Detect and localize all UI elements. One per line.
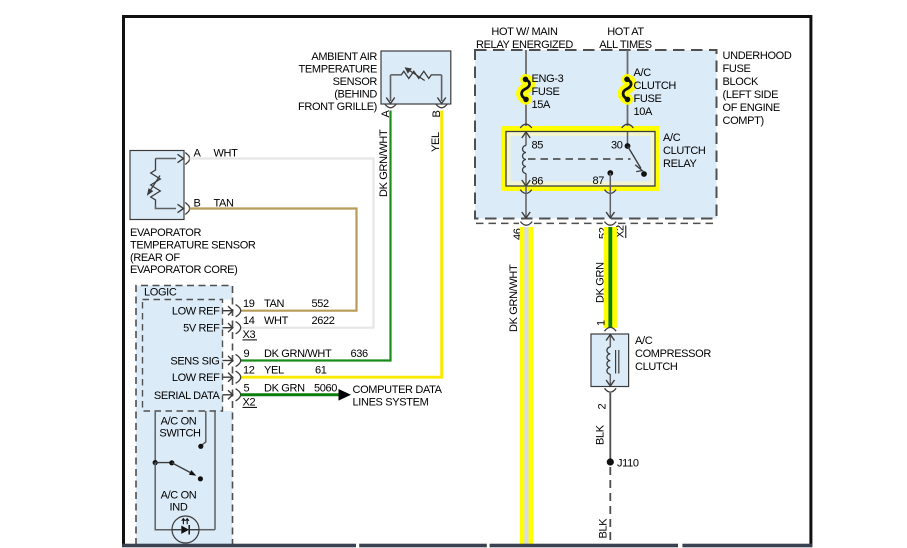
A/C on switch stubs	[155, 411, 215, 530]
ambient sensor caption	[298, 51, 377, 113]
svg-text:87: 87	[593, 175, 605, 187]
relay coil between 85 and 86	[522, 132, 530, 186]
outer frame	[122, 17, 812, 548]
svg-text:WHT: WHT	[264, 315, 289, 327]
svg-text:9: 9	[244, 348, 250, 360]
terminal label X2 underlined	[615, 225, 627, 238]
svg-text:5V REF: 5V REF	[183, 323, 220, 335]
svg-text:LOW REF: LOW REF	[172, 372, 220, 384]
svg-text:IND: IND	[170, 502, 188, 514]
svg-text:14: 14	[243, 315, 255, 327]
svg-text:ENG-3: ENG-3	[532, 73, 564, 85]
svg-text:A/C ON: A/C ON	[161, 416, 197, 428]
fuse ENG-3 label	[532, 73, 564, 111]
svg-text:AMBIENT AIR: AMBIENT AIR	[311, 51, 377, 63]
evaporator temperature sensor	[130, 148, 238, 220]
connector X3 label	[243, 329, 258, 341]
A/C clutch relay (highlighted)	[501, 126, 659, 191]
wire from right stub to LED	[199, 529, 215, 531]
svg-text:COMPRESSOR: COMPRESSOR	[635, 348, 711, 360]
splice J110	[607, 458, 639, 470]
svg-text:J110: J110	[617, 458, 639, 470]
svg-text:SERIAL DATA: SERIAL DATA	[154, 390, 221, 402]
evap internal leads	[156, 158, 177, 160]
logic pin 5	[154, 382, 337, 402]
svg-text:DK GRN/WHT: DK GRN/WHT	[508, 264, 520, 332]
svg-text:BLK: BLK	[595, 424, 607, 445]
svg-text:A/C: A/C	[634, 67, 652, 79]
svg-text:A/C: A/C	[663, 132, 681, 144]
svg-text:LOW REF: LOW REF	[172, 306, 220, 318]
svg-text:15A: 15A	[532, 99, 552, 111]
connector cup 46	[520, 222, 532, 226]
svg-text:30: 30	[611, 140, 623, 152]
relay top connector cup pin 30 side	[622, 124, 634, 128]
arrow at terminal B	[178, 204, 184, 212]
svg-text:A/C ON: A/C ON	[161, 490, 197, 502]
svg-text:85: 85	[532, 140, 544, 152]
A/C on indicator LED	[172, 516, 199, 543]
arrow at terminal A	[386, 98, 394, 104]
relay pin 30 lead	[625, 132, 631, 149]
svg-text:FUSE: FUSE	[532, 86, 560, 98]
wire WHT from evaporator A to logic pin 14	[190, 159, 374, 328]
svg-text:636: 636	[351, 348, 369, 360]
svg-text:FRONT GRILLE): FRONT GRILLE)	[298, 101, 377, 113]
wire from hot at all times to A/C clutch fuse	[627, 50, 629, 79]
svg-text:(LEFT SIDE: (LEFT SIDE	[723, 89, 779, 101]
svg-text:CLUTCH: CLUTCH	[663, 145, 706, 157]
fuse ENG-3 15A (highlighted)	[522, 77, 530, 103]
underhood fuse block box	[475, 50, 717, 219]
svg-text:HOT W/ MAIN: HOT W/ MAIN	[491, 26, 558, 38]
relay coil to switch dashed link	[528, 158, 631, 160]
wire from ENG-3 fuse to relay	[525, 100, 527, 132]
svg-text:CLUTCH: CLUTCH	[635, 361, 678, 373]
connector cup B	[185, 203, 189, 215]
svg-text:UNDERHOOD: UNDERHOOD	[723, 50, 792, 62]
svg-text:SENSOR: SENSOR	[333, 76, 378, 88]
logic inner dashed box	[143, 300, 223, 412]
svg-text:5060: 5060	[314, 382, 337, 394]
svg-text:19: 19	[243, 298, 255, 310]
svg-text:COMPUTER DATA: COMPUTER DATA	[353, 384, 443, 396]
svg-text:DK GRN/WHT: DK GRN/WHT	[264, 348, 332, 360]
svg-text:DK GRN/WHT: DK GRN/WHT	[378, 129, 390, 197]
svg-text:SENS SIG: SENS SIG	[170, 356, 219, 368]
svg-text:RELAY: RELAY	[663, 158, 698, 170]
svg-text:X2: X2	[243, 396, 256, 408]
highlighted wire DK GRN/WHT circuit 46	[520, 227, 533, 545]
wire from switch to LED	[155, 463, 172, 530]
wire TAN from evaporator B to logic pin 19	[190, 209, 357, 311]
svg-text:LINES SYSTEM: LINES SYSTEM	[353, 397, 429, 409]
logic pin 14	[183, 315, 335, 335]
svg-text:BLOCK: BLOCK	[723, 76, 760, 88]
svg-text:YEL: YEL	[264, 365, 284, 377]
compressor caption	[635, 335, 711, 373]
wire BLK dashed below J110	[609, 467, 611, 544]
arrow at terminal A	[178, 154, 184, 162]
logic pin 12	[172, 365, 327, 385]
svg-text:EVAPORATOR: EVAPORATOR	[130, 227, 201, 239]
svg-text:(REAR OF: (REAR OF	[130, 252, 180, 264]
compressor top connector cup	[605, 327, 617, 331]
logic pin 19	[172, 298, 329, 318]
fuse A/C CLUTCH label	[634, 67, 677, 118]
svg-text:OF ENGINE: OF ENGINE	[723, 102, 780, 114]
ambient air temperature sensor U1	[380, 51, 451, 118]
wire DK GRN/WHT from ambient A to logic pin 9	[241, 111, 391, 361]
svg-text:2622: 2622	[312, 315, 335, 327]
arrow at terminal B	[437, 98, 445, 104]
svg-text:12: 12	[243, 365, 255, 377]
A/C compressor clutch	[591, 334, 629, 387]
relay caption	[663, 132, 706, 170]
svg-text:A/C: A/C	[635, 335, 653, 347]
connector cup A	[185, 153, 189, 165]
connector cup 52	[604, 222, 616, 226]
svg-text:BLK: BLK	[598, 518, 610, 539]
logic module box	[136, 286, 233, 546]
svg-text:552: 552	[312, 298, 330, 310]
svg-text:DK GRN: DK GRN	[264, 382, 305, 394]
svg-text:(BEHIND: (BEHIND	[334, 89, 377, 101]
svg-text:YEL: YEL	[430, 132, 442, 152]
svg-text:DK GRN: DK GRN	[595, 262, 607, 303]
svg-text:TEMPERATURE: TEMPERATURE	[299, 64, 377, 76]
relay top connector cup pin 85 side	[520, 124, 532, 128]
relay pin 87 contact	[607, 170, 613, 186]
underhood bottom connector dashed bar	[476, 222, 716, 224]
ambient sensor internal leads	[390, 75, 392, 101]
wire DK GRN serial data	[241, 393, 339, 396]
svg-text:COMPT): COMPT)	[723, 115, 764, 127]
hot labels	[476, 26, 652, 51]
svg-text:FUSE: FUSE	[723, 63, 751, 75]
svg-text:5: 5	[244, 382, 250, 394]
svg-text:61: 61	[315, 365, 327, 377]
resistor inside evaporator sensor	[151, 159, 161, 206]
connector X2 label	[243, 396, 258, 408]
logic pin 9	[170, 348, 368, 368]
svg-text:RELAY ENERGIZED: RELAY ENERGIZED	[476, 39, 573, 51]
svg-text:FUSE: FUSE	[634, 93, 662, 105]
evaporator sensor caption	[130, 227, 256, 276]
svg-text:1: 1	[596, 320, 608, 326]
relay bottom connector cup pin 87 side	[605, 190, 617, 194]
compressor bottom connector cup	[605, 388, 617, 392]
resistor inside ambient sensor	[391, 71, 442, 78]
svg-text:86: 86	[532, 176, 544, 188]
svg-text:10A: 10A	[634, 106, 654, 118]
wire BLK to J110	[609, 393, 611, 462]
svg-text:2: 2	[597, 404, 609, 410]
highlighted wire DK GRN circuit 52	[604, 227, 617, 328]
connector cup A	[385, 104, 397, 108]
svg-text:TEMPERATURE SENSOR: TEMPERATURE SENSOR	[130, 240, 256, 252]
svg-text:SWITCH: SWITCH	[159, 428, 201, 440]
svg-text:X3: X3	[243, 329, 256, 341]
connector cup B	[436, 104, 448, 108]
A/C on indicator caption	[161, 490, 197, 514]
svg-text:ALL TIMES: ALL TIMES	[599, 39, 651, 51]
svg-text:HOT AT: HOT AT	[607, 26, 644, 38]
svg-text:EVAPORATOR CORE): EVAPORATOR CORE)	[130, 264, 237, 276]
relay switch blade	[628, 146, 647, 177]
A/C on switch contacts	[153, 460, 203, 481]
wire YEL from ambient B to logic pin 12	[241, 111, 442, 378]
wire from A/C clutch fuse to relay pin 30	[627, 100, 629, 132]
wire relay 87 to underhood exit	[606, 186, 614, 218]
underhood caption	[723, 50, 792, 127]
relay bottom connector cup pin 86 side	[520, 190, 532, 194]
computer data lines arrow	[339, 384, 443, 408]
A/C on switch caption	[159, 416, 201, 440]
svg-text:TAN: TAN	[264, 298, 285, 310]
wire relay 86 to underhood exit	[522, 186, 530, 218]
svg-text:CLUTCH: CLUTCH	[634, 80, 677, 92]
wire from hot main to fuse ENG-3	[525, 50, 527, 79]
fuse A/C CLUTCH 10A (highlighted)	[623, 77, 631, 103]
svg-text:LOGIC: LOGIC	[144, 287, 177, 299]
